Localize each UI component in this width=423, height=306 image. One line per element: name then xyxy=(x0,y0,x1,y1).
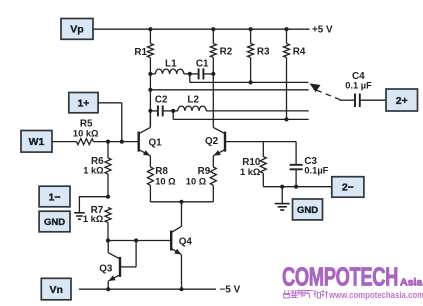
svg-text:R9: R9 xyxy=(198,166,211,177)
wire R1 bottom xyxy=(149,58,151,74)
svg-text:R1: R1 xyxy=(134,47,147,58)
wire W1 to R5 xyxy=(52,141,77,143)
wire Q3 collector xyxy=(107,241,109,253)
label C4 value xyxy=(345,81,372,91)
svg-text:C1: C1 xyxy=(196,58,209,69)
ground symbol right xyxy=(275,204,290,210)
wire R3 bottom xyxy=(250,58,252,83)
svg-text:C2: C2 xyxy=(155,94,168,105)
wire Vp to +5V rail xyxy=(93,28,150,30)
wire node to L2 xyxy=(173,110,178,112)
wire emitter join xyxy=(150,201,213,203)
wire R10 bottom xyxy=(262,173,264,186)
svg-text:1+: 1+ xyxy=(77,97,89,109)
wire Q4 emitter xyxy=(181,255,183,289)
wire tap line A xyxy=(190,81,309,83)
wire Q3 base L horizontal xyxy=(121,266,136,268)
svg-text:1 kΩ: 1 kΩ xyxy=(240,167,261,177)
node rail-R4 xyxy=(284,27,288,31)
label R9 xyxy=(198,166,211,177)
logo chinese tagline xyxy=(283,290,328,298)
wire R4 bottom xyxy=(286,58,288,120)
label R4 xyxy=(293,47,306,58)
resistor R2 xyxy=(210,44,216,58)
wire C1 to R2 xyxy=(203,73,213,75)
switch arrowhead xyxy=(310,83,321,92)
wire L1 to node xyxy=(184,73,190,75)
wire Q3 emitter xyxy=(107,281,109,289)
node rail-R1 xyxy=(148,27,152,31)
wire rail to R1 xyxy=(149,29,151,43)
label Q4 xyxy=(179,236,193,247)
svg-text:10 Ω: 10 Ω xyxy=(155,177,176,187)
inductor L1 xyxy=(155,69,183,74)
node lineD-R4 xyxy=(284,117,288,121)
wire R9 bottom xyxy=(212,185,214,202)
resistor R3 xyxy=(248,44,254,58)
svg-text:Vn: Vn xyxy=(49,284,62,296)
terminal box 1- xyxy=(39,186,70,207)
transistor Q4 xyxy=(171,226,181,254)
svg-text:R2: R2 xyxy=(220,47,233,58)
label R6 value xyxy=(83,166,104,176)
wire R1 to L1 xyxy=(150,73,155,75)
label -5 V xyxy=(220,284,241,295)
wire Q1 collector xyxy=(149,111,151,128)
wire R1 column down xyxy=(149,74,151,128)
wire node to C1 xyxy=(190,73,199,75)
node R1col-C2 xyxy=(148,109,152,113)
svg-text:Q3: Q3 xyxy=(99,264,113,275)
wire C3 top xyxy=(295,142,297,164)
wire R10 top xyxy=(262,142,264,157)
label C4 xyxy=(352,71,365,82)
svg-text:Q2: Q2 xyxy=(205,136,219,147)
label R6 xyxy=(91,156,104,167)
wire gnd stem right xyxy=(281,187,283,204)
wire R6 bottom xyxy=(107,174,109,197)
svg-text:1 kΩ: 1 kΩ xyxy=(83,214,104,224)
wire Q4 base line xyxy=(108,240,171,242)
svg-text:COMPOTECH: COMPOTECH xyxy=(282,263,398,292)
wire join to Q4 collector xyxy=(181,202,183,227)
resistor R1 xyxy=(147,44,153,58)
capacitor C2 xyxy=(158,105,163,116)
node C2-L2 xyxy=(171,109,175,113)
wire output bottom line xyxy=(263,186,332,188)
label R2 xyxy=(220,47,233,58)
svg-text:2+: 2+ xyxy=(396,95,408,107)
svg-text:0.1µF: 0.1µF xyxy=(304,166,328,176)
terminal box 2- xyxy=(332,177,364,198)
label R3 xyxy=(257,47,270,58)
label R10 xyxy=(242,157,261,168)
wire L1-C1 node drop xyxy=(189,74,191,83)
label R7 xyxy=(91,205,104,216)
node L1-C1 xyxy=(188,72,192,76)
svg-text:R8: R8 xyxy=(155,166,168,177)
resistor R9 xyxy=(210,167,216,185)
svg-text:2−: 2− xyxy=(342,182,354,194)
transistor Q3 xyxy=(108,253,120,281)
wire Q1 emitter xyxy=(149,156,151,167)
terminal box Vn xyxy=(41,278,71,300)
node C1-R2 xyxy=(211,72,215,76)
svg-text:Asia: Asia xyxy=(400,277,422,289)
wire node to C2 xyxy=(150,110,158,112)
label C1 xyxy=(196,58,209,69)
svg-text:−5 V: −5 V xyxy=(220,284,241,295)
svg-text:W1: W1 xyxy=(29,136,45,148)
transistor Q2 xyxy=(213,127,225,155)
wire to C4 xyxy=(340,99,355,101)
node rail-R3 xyxy=(249,27,253,31)
label L1 xyxy=(165,58,177,69)
terminal box 1+ xyxy=(69,93,98,113)
label R8 xyxy=(155,166,168,177)
resistor R4 xyxy=(284,44,290,58)
label R5 xyxy=(80,119,93,130)
node C3 bottom xyxy=(294,185,298,189)
svg-text:10 Ω: 10 Ω xyxy=(186,177,207,187)
wire Q3 base L vertical xyxy=(135,241,137,267)
label Q1 xyxy=(149,137,163,148)
wire R8 bottom xyxy=(149,185,151,202)
svg-text:GND: GND xyxy=(297,205,318,216)
label Q2 xyxy=(205,136,219,147)
wire R7 bottom xyxy=(107,223,109,241)
node R5-R6 xyxy=(106,140,110,144)
wire Q2 emitter xyxy=(212,156,214,167)
wire tap line D xyxy=(173,118,309,120)
label R8 value xyxy=(155,177,176,187)
resistor R6 xyxy=(105,158,111,174)
node rail-R2 xyxy=(211,27,215,31)
logo COMPOTECH Asia xyxy=(282,263,422,292)
wire R2 bottom xyxy=(212,58,214,74)
node Q3 base tap xyxy=(134,238,138,242)
inductor L2 xyxy=(178,106,206,111)
svg-text:Q1: Q1 xyxy=(149,137,163,148)
node emitter join xyxy=(179,200,183,204)
svg-text:L2: L2 xyxy=(187,94,199,105)
resistor R7 xyxy=(105,208,111,223)
svg-text:Vp: Vp xyxy=(70,24,83,36)
ground symbol left xyxy=(74,213,85,219)
wire to ground xyxy=(79,196,108,213)
svg-text:1 kΩ: 1 kΩ xyxy=(83,166,104,176)
capacitor C4 xyxy=(355,94,360,108)
svg-text:GND: GND xyxy=(44,217,65,228)
svg-text:R3: R3 xyxy=(257,47,270,58)
wire R5 to Q1 base xyxy=(94,141,139,143)
label C3 value xyxy=(304,166,328,176)
node lineA-R3 xyxy=(249,80,253,84)
node R1-L1 xyxy=(148,72,152,76)
svg-text:www.compotechasia.com: www.compotechasia.com xyxy=(328,289,423,300)
label R5 value xyxy=(73,128,99,138)
resistor R10 xyxy=(260,157,266,174)
wire 1+ horizontal xyxy=(98,102,122,104)
dashed wire to C4 xyxy=(317,90,342,100)
terminal box Vp xyxy=(61,19,93,40)
node R6-R7-gnd xyxy=(106,195,110,199)
svg-text:L1: L1 xyxy=(165,58,177,69)
wire rail to R3 xyxy=(250,29,252,43)
svg-text:10 kΩ: 10 kΩ xyxy=(73,128,99,138)
node rail-Q3 xyxy=(106,287,110,291)
wire R6 top xyxy=(107,142,109,158)
svg-text:R4: R4 xyxy=(293,47,306,58)
capacitor C1 xyxy=(199,68,204,79)
terminal box 2+ xyxy=(386,89,418,111)
label Q3 xyxy=(99,264,113,275)
label C3 xyxy=(304,156,317,167)
label L2 xyxy=(187,94,199,105)
wire rail to R2 xyxy=(212,29,214,43)
wire C2 to node xyxy=(163,110,174,112)
terminal box GND left xyxy=(39,211,70,232)
wire Q2 base to R10 xyxy=(226,141,296,143)
wire rail to R4 xyxy=(286,29,288,43)
svg-text:+5 V: +5 V xyxy=(312,25,333,36)
resistor R5 xyxy=(77,139,94,145)
label R10 value xyxy=(240,167,261,177)
node R1col-lineB xyxy=(148,88,152,92)
wire C3 bottom xyxy=(295,170,297,187)
node 1+-base xyxy=(120,140,124,144)
wire R2 column down xyxy=(212,74,214,128)
label R9 value xyxy=(186,177,207,187)
terminal box GND right xyxy=(293,199,323,220)
node rail-Q4 xyxy=(179,287,183,291)
terminal box W1 xyxy=(21,131,52,153)
-5V rail wire xyxy=(79,288,216,290)
resistor R8 xyxy=(147,167,153,185)
node R7-Q3 xyxy=(106,238,110,242)
+5V rail wire xyxy=(150,28,309,30)
label R7 value xyxy=(83,214,104,224)
label +5 V xyxy=(312,25,333,36)
svg-text:0.1 µF: 0.1 µF xyxy=(345,81,372,91)
logo url xyxy=(328,289,423,300)
wire C4 to 2+ xyxy=(361,99,387,101)
transistor Q1 xyxy=(139,127,151,155)
capacitor C3 xyxy=(290,165,303,170)
svg-text:Q4: Q4 xyxy=(179,236,193,247)
node gnd tap xyxy=(280,185,284,189)
label R1 xyxy=(134,47,147,58)
svg-text:1−: 1− xyxy=(49,191,61,203)
wire 1+ drop xyxy=(121,103,123,142)
label C2 xyxy=(155,94,168,105)
wire tap line C xyxy=(206,110,309,112)
wire tap line B xyxy=(150,89,308,91)
wire C2-L2 node drop xyxy=(172,111,174,120)
